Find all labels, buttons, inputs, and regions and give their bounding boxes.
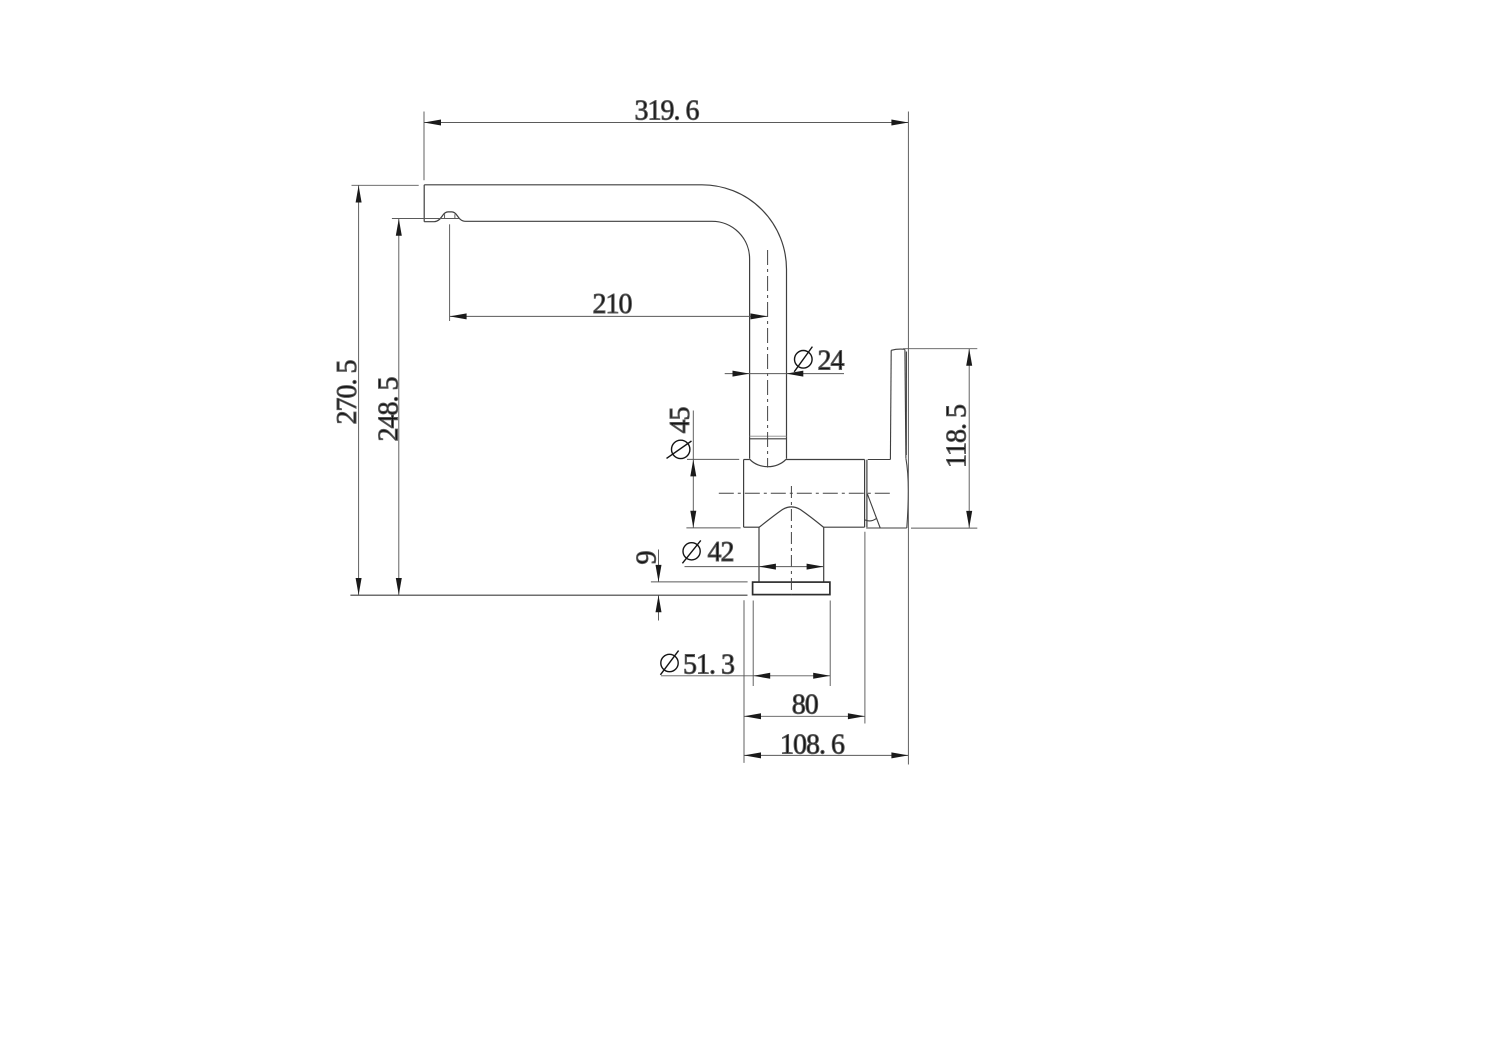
arrowheads (356, 120, 973, 759)
aerator ticks (440, 214, 459, 218)
dimension 108.6 (744, 754, 908, 756)
dimension 248.5 (392, 219, 459, 596)
D51.3 symbol (661, 654, 678, 671)
baseline countertop (350, 594, 747, 596)
body outline (744, 459, 867, 527)
svg-text:42: 42 (708, 537, 734, 568)
dimension 210 (450, 224, 768, 321)
dimension 270.5 (352, 185, 419, 595)
dimension 319.6 (424, 112, 908, 765)
D42 symbol (683, 543, 700, 560)
centerline base axis (790, 486, 792, 595)
centerline body axis (719, 492, 891, 494)
diameter symbols (660, 347, 812, 675)
svg-text:210: 210 (593, 289, 632, 320)
pipe joint line (750, 435, 787, 437)
svg-text:24: 24 (818, 346, 845, 377)
svg-text:51. 3: 51. 3 (683, 650, 734, 681)
dimension D42 (685, 566, 824, 568)
dimension 118.5 (903, 349, 977, 528)
svg-text:319. 6: 319. 6 (635, 96, 700, 127)
dimension 80 (744, 532, 865, 763)
svg-text:9: 9 (632, 552, 663, 565)
svg-text:45: 45 (665, 408, 696, 434)
dimension D51.3 (661, 601, 830, 687)
dimension D24 (725, 373, 844, 375)
dimension 9 (651, 550, 748, 621)
svg-text:118. 5: 118. 5 (942, 405, 973, 468)
svg-text:80: 80 (792, 690, 818, 721)
D45 symbol (rotated) (672, 440, 690, 458)
D24 symbol (795, 351, 813, 369)
arch dome (759, 507, 824, 528)
faucet spout outline (424, 185, 786, 459)
svg-text:270. 5: 270. 5 (332, 361, 363, 425)
neck (759, 527, 824, 582)
svg-text:248. 5: 248. 5 (374, 378, 405, 442)
handle (865, 349, 908, 528)
centerline pipe axis (767, 250, 769, 468)
dimension D45 (686, 411, 740, 528)
svg-text:108. 6: 108. 6 (780, 730, 845, 761)
flange (753, 582, 830, 595)
